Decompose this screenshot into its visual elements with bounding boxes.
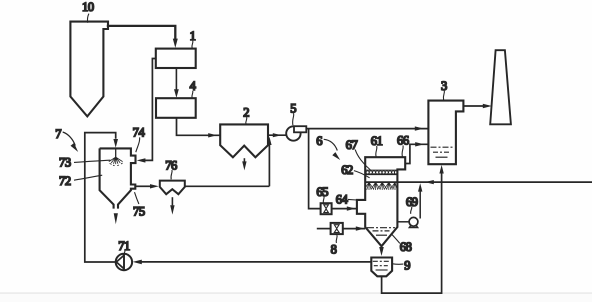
wire: scrubber outlet 66 to tower 3: [405, 144, 428, 163]
spray nozzles 67 row: [365, 182, 398, 190]
svg-text:71: 71: [118, 239, 130, 253]
leader for 74: [136, 137, 140, 152]
arrow into box1: [173, 39, 178, 48]
pump 69: [409, 217, 418, 226]
leader for 73: [74, 160, 110, 162]
heat exchanger 1: [156, 49, 196, 68]
arrow: ESP ash outlet down: [243, 158, 245, 162]
arrow into notch 74: [137, 158, 146, 162]
ESP 2 (dust collector): [220, 124, 268, 157]
leader for 10: [87, 14, 88, 23]
pump 71: [116, 254, 132, 270]
pump 69 suction: [397, 221, 409, 223]
liquid dashes in tank 9: [373, 260, 391, 262]
wire: tower 3 to chimney: [463, 105, 488, 107]
svg-text:7: 7: [55, 127, 61, 141]
leader for 3: [443, 90, 444, 99]
leader for 72: [74, 175, 102, 180]
wire: valve 65 to scrubber inlet 64: [332, 208, 357, 210]
leader for 68: [391, 234, 400, 244]
chimney: [490, 50, 511, 124]
demister band 62 in scrubber: [365, 170, 397, 174]
wire: dryer outlet 75 to hopper 76: [135, 185, 150, 187]
fan 5: [286, 126, 300, 140]
svg-text:65: 65: [316, 185, 328, 199]
wire: box1 left stub down to dryer inlet 74: [141, 59, 156, 161]
leader for 1: [192, 41, 193, 49]
wire: fan 5 to tower 3 (main flue line): [306, 128, 428, 130]
svg-text:62: 62: [341, 163, 353, 177]
liquid level dashes in tower 3: [431, 146, 455, 148]
leader for 67: [355, 150, 370, 170]
arrow: scrubber cone to tank 9: [379, 247, 384, 256]
leader for 76: [171, 170, 172, 179]
spray header line and supply line from right edge: [365, 181, 592, 183]
arrow into box4: [174, 89, 179, 98]
svg-text:68: 68: [400, 240, 412, 254]
arrow into ESP 2: [208, 133, 217, 137]
wire: tank 9 to pump 71: [142, 261, 372, 263]
leader for 9: [393, 263, 404, 266]
svg-text:8: 8: [331, 243, 337, 257]
leader for 64: [348, 198, 357, 201]
leader for 75: [135, 192, 139, 204]
spray dryer 72 outline: [100, 148, 114, 208]
wire: line 8 into scrubber bottom: [317, 228, 331, 230]
leader for 4: [192, 91, 193, 98]
leader for 66: [402, 145, 403, 156]
heat exchanger 4: [156, 98, 196, 118]
leader for 62: [354, 171, 370, 178]
svg-text:74: 74: [133, 126, 146, 140]
svg-text:72: 72: [59, 174, 71, 188]
vessel 10 (boiler): [70, 22, 108, 117]
wire: hopper 76 gas line to ESP outlet junction: [185, 145, 270, 187]
bottom scan band: [0, 293, 592, 302]
leader for 69: [411, 207, 412, 214]
leader for 2: [246, 117, 247, 124]
arrow: hopper 76 outlet down: [171, 197, 173, 205]
tower 3: [428, 101, 463, 165]
wire: vessel10 outlet to box1: [107, 26, 176, 39]
valve 65: [321, 203, 332, 214]
svg-text:75: 75: [133, 204, 145, 218]
pump 69 discharge up to spray line: [419, 186, 421, 218]
leader arrow for 6: [324, 139, 338, 150]
leader for 71: [123, 250, 126, 255]
hopper 76: [160, 181, 185, 195]
feed pipe into nozzle 73: [115, 148, 117, 157]
wire: box4 outlet to ESP 2: [177, 118, 221, 136]
wire: branch down to valve 65: [309, 129, 321, 209]
leader for 8: [335, 235, 338, 243]
svg-text:76: 76: [165, 158, 177, 172]
valve 8: [331, 223, 343, 234]
leader for 61: [376, 146, 377, 157]
wire: valve 8 to scrubber: [343, 228, 365, 230]
wire: pump 71 recirculation loop to spray dryer 72: [85, 133, 116, 262]
tank 9: [371, 258, 392, 277]
scrubber 61 outline: [357, 157, 405, 246]
arrow: dryer 72 bottom outlet: [114, 213, 118, 224]
svg-text:9: 9: [404, 259, 410, 273]
svg-text:73: 73: [59, 155, 71, 169]
svg-text:6: 6: [316, 134, 322, 148]
wire: box1 to box4: [175, 68, 177, 90]
wire: tank 9 bottom loop up into tower 3: [382, 173, 442, 293]
leader arrow for 7: [63, 132, 76, 146]
spray nozzle 73: [109, 157, 123, 166]
leader for 65: [322, 196, 325, 202]
wire: ESP 2 to fan 5: [268, 134, 287, 136]
svg-text:10: 10: [82, 0, 94, 14]
leader for 5: [293, 113, 294, 125]
liquid level dashes in scrubber sump: [367, 227, 395, 229]
svg-text:64: 64: [336, 192, 349, 206]
